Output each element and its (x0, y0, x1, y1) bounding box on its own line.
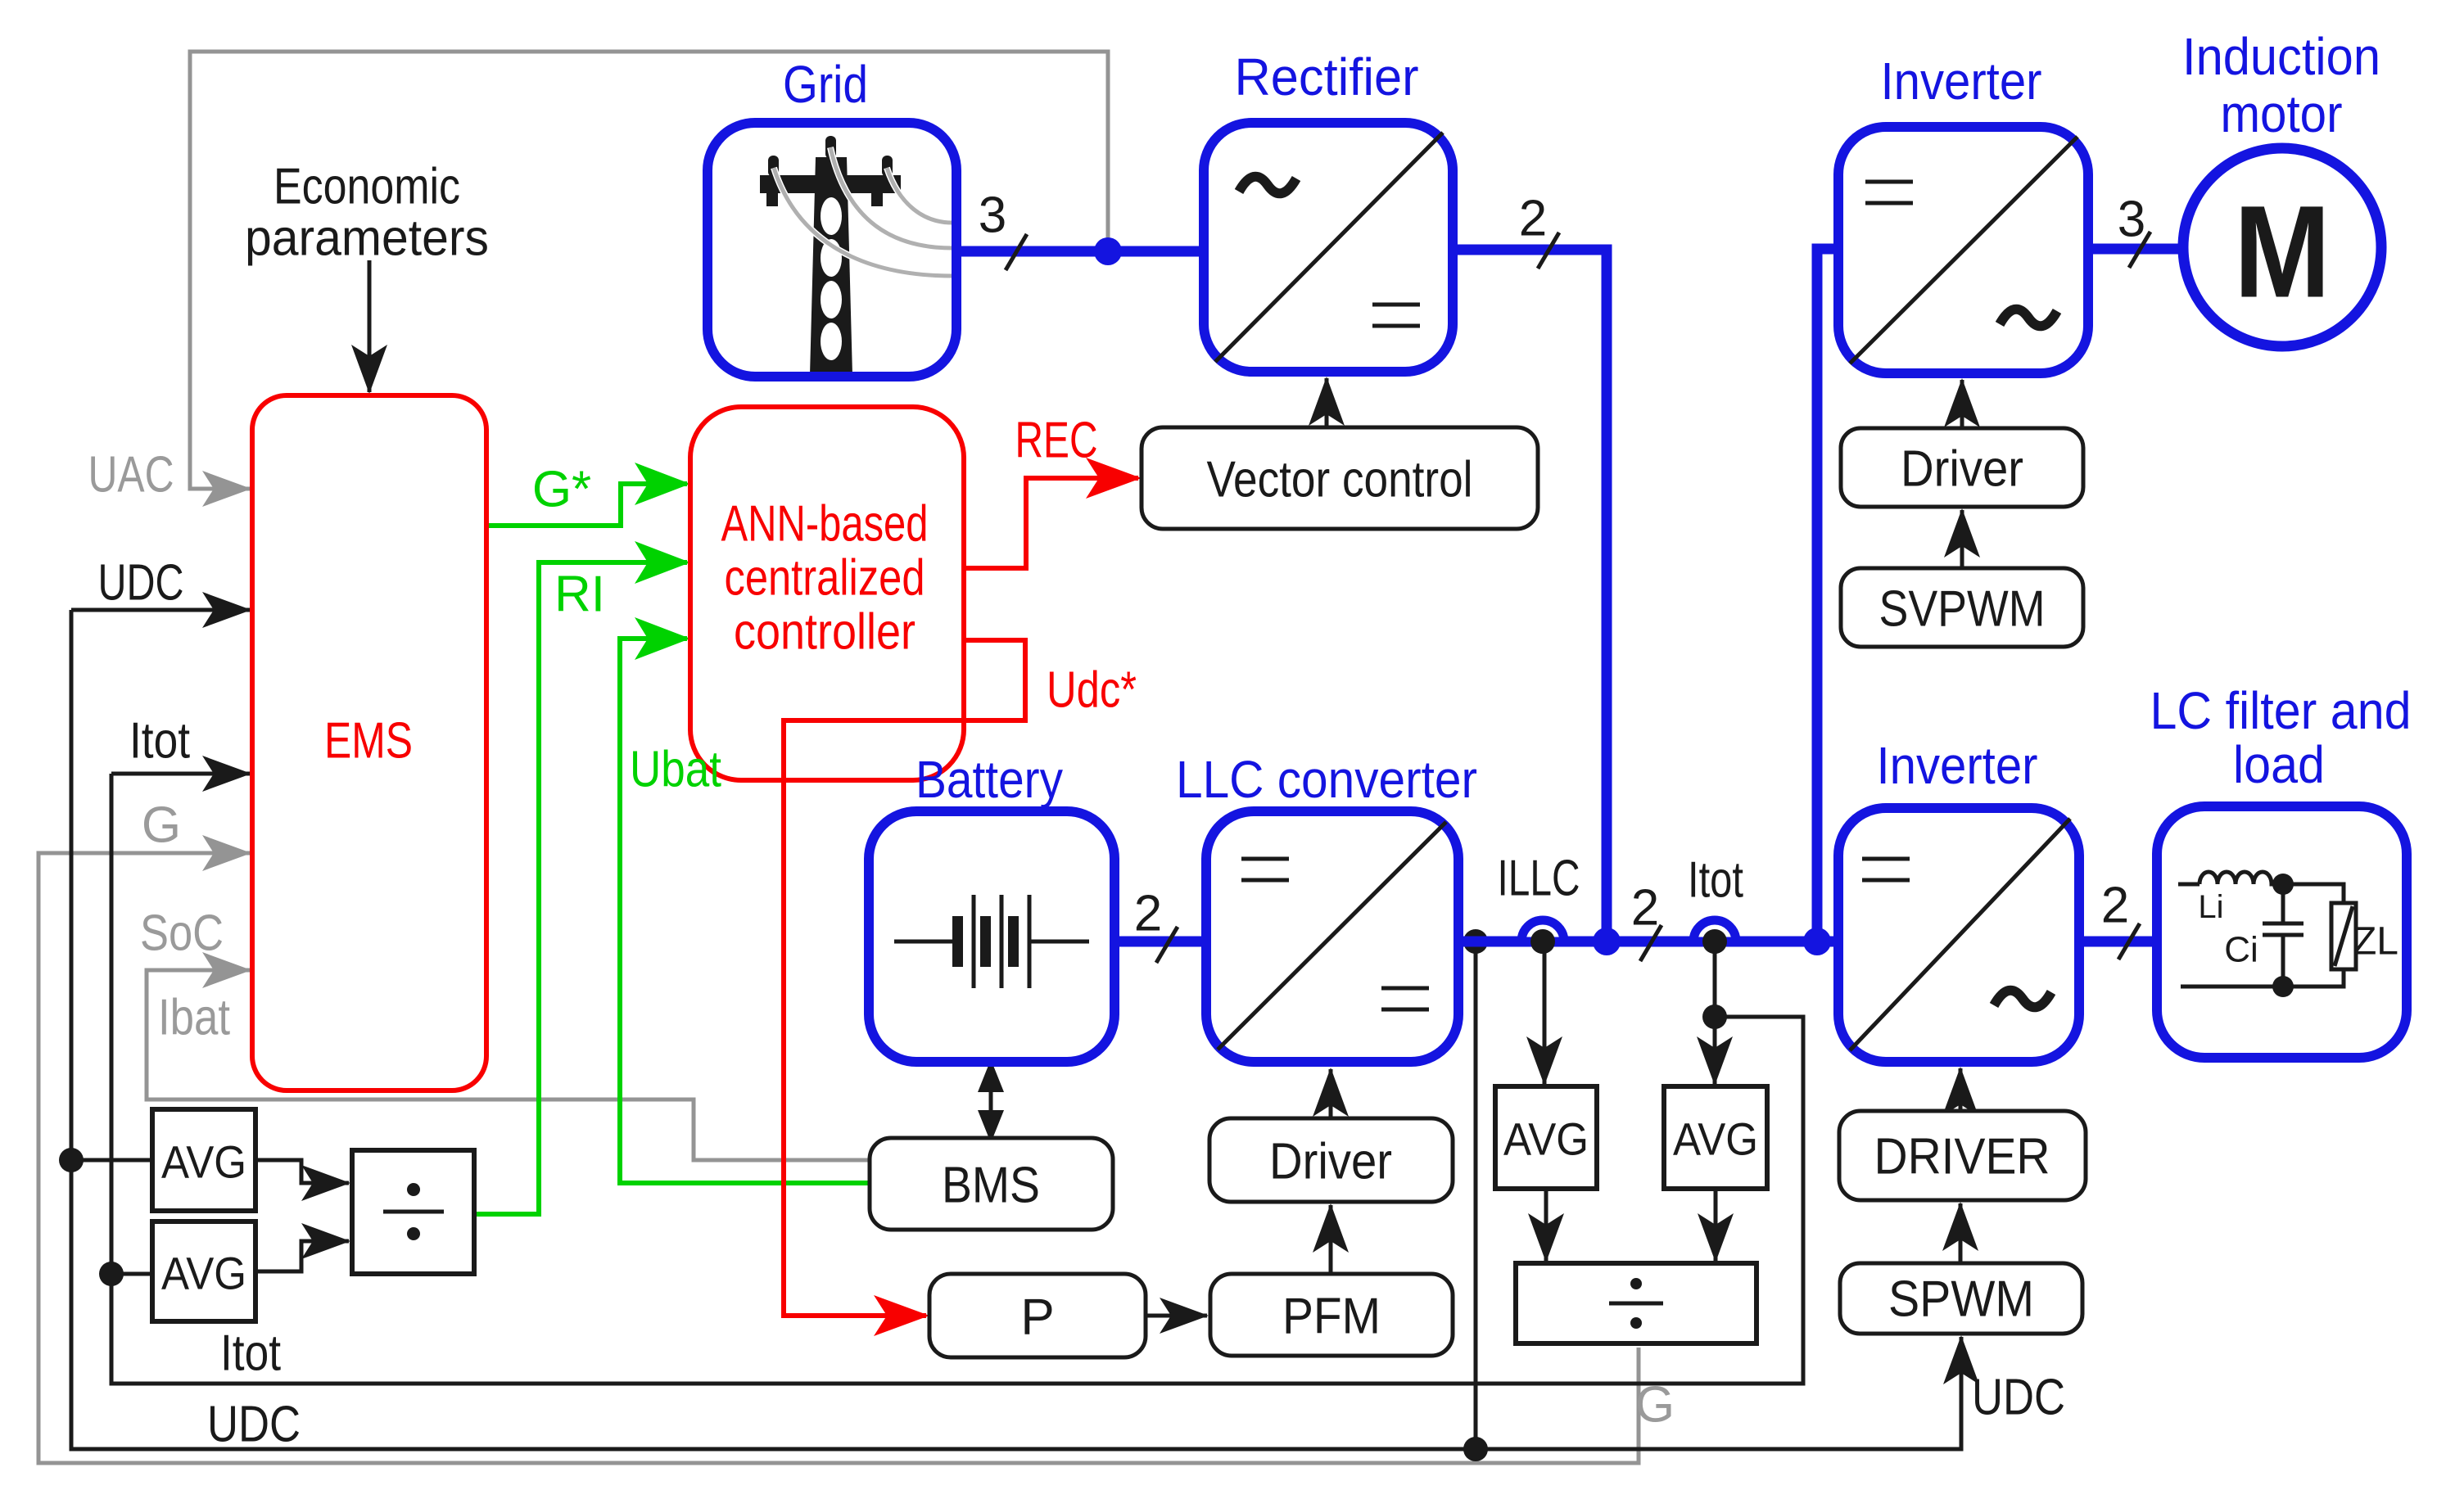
wire blue Grid to Rectifier (956, 246, 1204, 257)
svg-text:LLC converter: LLC converter (1176, 750, 1477, 809)
svg-text:Ibat: Ibat (158, 990, 230, 1046)
grid tower mast (810, 157, 852, 375)
svg-text:Induction: Induction (2182, 27, 2380, 86)
wire Itot black net: EMS input, bottom rail (111, 772, 250, 776)
svg-text:SPWM: SPWM (1888, 1271, 2034, 1328)
Driver box LLC (1209, 1118, 1453, 1202)
svg-text:UDC: UDC (207, 1397, 301, 1453)
svg-text:Itot: Itot (220, 1325, 281, 1382)
wire Ubat green BMS to ANN (620, 639, 870, 1183)
slash rectifier output (1538, 233, 1559, 269)
svg-text:Inverter: Inverter (1881, 52, 2042, 111)
junction dot grid node (1094, 237, 1122, 265)
svg-text:AVG: AVG (161, 1136, 246, 1188)
svg-text:controller: controller (734, 604, 916, 661)
Inverter top block (1838, 127, 2088, 373)
LC filter capacitor Ci (2263, 884, 2304, 987)
divider box left (352, 1150, 474, 1274)
slash grid output (1006, 234, 1027, 270)
wire Battery to BMS bidirectional (989, 1074, 993, 1128)
wire AVG1 to divider (255, 1160, 349, 1183)
inverter top diagonal (1850, 137, 2077, 363)
wire ILLC sense to AVG (1543, 941, 1547, 1084)
svg-text:3: 3 (979, 187, 1006, 244)
wire Driver to LLC converter (1329, 1069, 1333, 1118)
grid wires gray catenaries (774, 168, 952, 276)
BMS box (870, 1138, 1113, 1230)
inverter bottom diagonal (1850, 819, 2070, 1050)
svg-text:AVG: AVG (1503, 1113, 1589, 1165)
wire AVG mid1 to divider mid (1544, 1189, 1548, 1261)
svg-text:SVPWM: SVPWM (1879, 581, 2046, 638)
wire UAC gray feedback from grid node to EMS (190, 52, 1108, 489)
LC filter node top (2272, 874, 2294, 895)
svg-text:G: G (1635, 1377, 1675, 1434)
junction dot DC bus rectifier (1593, 928, 1621, 955)
wire blue Inverter bottom to LC filter (2079, 937, 2157, 947)
Driver box top (1841, 428, 2083, 507)
svg-text:Vector control: Vector control (1207, 452, 1473, 508)
wire Udc* red ANN to P (784, 640, 1025, 1316)
wire AVG mid2 to divider mid (1714, 1189, 1718, 1261)
svg-text:UDC: UDC (98, 555, 184, 612)
svg-text:Itot: Itot (129, 713, 190, 770)
DRIVER box (1839, 1111, 2086, 1200)
divider box mid (1516, 1263, 1756, 1343)
svg-text:Grid: Grid (783, 55, 868, 114)
svg-text:G*: G* (532, 462, 591, 518)
svg-text:2: 2 (1631, 880, 1659, 937)
svg-text:2: 2 (1519, 191, 1547, 247)
svg-text:UDC: UDC (1972, 1370, 2065, 1426)
Grid block (708, 123, 956, 377)
wire blue Rectifier to DC bus (1453, 250, 1607, 941)
wire DRIVER to Inverter bottom (1959, 1068, 1963, 1111)
LLC diagonal (1218, 822, 1446, 1050)
svg-text:REC: REC (1015, 413, 1098, 469)
junction dot Itot sense branch (1702, 1005, 1727, 1029)
LC filter node bottom (2272, 976, 2294, 997)
svg-text:M: M (2234, 178, 2331, 325)
Battery block (869, 811, 1114, 1062)
LC filter and load block (2157, 806, 2407, 1058)
Vector control box (1142, 427, 1538, 529)
junction dot UDC tap top (1463, 929, 1488, 954)
wire Vector control to Rectifier (1325, 378, 1329, 427)
wire SoC/Ibat gray from BMS to EMS (147, 970, 870, 1160)
junction dot ILLC sense (1530, 929, 1555, 954)
slash battery output (1156, 927, 1178, 963)
grid tower mast holes (821, 197, 842, 235)
rectifier AC symbol (1239, 177, 1296, 194)
battery symbol (894, 940, 1089, 944)
wire G* green EMS to ANN (486, 484, 687, 526)
svg-text:DRIVER: DRIVER (1874, 1129, 2050, 1185)
SVPWM box (1841, 568, 2083, 647)
svg-text:Ubat: Ubat (630, 742, 721, 798)
grid tower crossarm (760, 175, 901, 206)
AVG box mid 2 (1664, 1086, 1767, 1189)
wire G gray from divider to EMS (38, 853, 1639, 1463)
svg-text:G: G (142, 797, 181, 854)
svg-text:PFM: PFM (1282, 1289, 1381, 1345)
wire blue Inverter top to motor (2088, 244, 2180, 255)
wire SPWM to DRIVER (1959, 1203, 1963, 1263)
LLC converter block (1206, 811, 1458, 1062)
grid tower insulator pins (768, 156, 779, 177)
svg-text:AVG: AVG (1673, 1113, 1758, 1165)
inverter top AC symbol (2000, 309, 2057, 327)
svg-text:SoC: SoC (140, 905, 224, 962)
svg-text:Economic: Economic (274, 159, 460, 215)
svg-text:Battery: Battery (916, 750, 1063, 809)
svg-text:P: P (1020, 1289, 1054, 1346)
svg-text:Rectifier: Rectifier (1235, 47, 1419, 106)
svg-text:parameters: parameters (245, 210, 489, 267)
svg-text:LC filter and: LC filter and (2150, 681, 2412, 740)
wire P to PFM (1146, 1314, 1207, 1318)
svg-text:Inverter: Inverter (1877, 736, 2038, 795)
AVG box left 2 (152, 1221, 255, 1321)
svg-text:Li: Li (2198, 889, 2223, 925)
wire UDC to AVG box (71, 1158, 152, 1163)
LLC DC symbol bottom (1381, 988, 1429, 1009)
ANN-based centralized controller block (690, 407, 964, 780)
wire SVPWM to Driver top (1960, 510, 1964, 568)
wire AVG2 to divider (255, 1241, 349, 1271)
wire Itot to AVG box (111, 1272, 152, 1276)
LC filter inductor Li (2178, 872, 2283, 884)
wire Itot sense branch to bottom rail (1715, 1017, 1803, 1384)
wire UDC black net: EMS input, bottom rail, SPWM input (71, 608, 250, 612)
LLC DC symbol top (1241, 859, 1289, 880)
wire blue LLC to Inverter bottom (1458, 937, 1838, 947)
rectifier diagonal (1215, 133, 1443, 362)
slash inverter top output (2129, 232, 2150, 268)
AVG box mid 1 (1495, 1086, 1597, 1189)
inverter bottom AC symbol (1994, 991, 2051, 1008)
svg-text:centralized: centralized (725, 550, 925, 607)
Inverter bottom block (1838, 808, 2079, 1062)
svg-text:ANN-based: ANN-based (721, 496, 929, 553)
svg-text:ILLC: ILLC (1498, 851, 1580, 907)
svg-text:motor: motor (2221, 84, 2343, 143)
current sensor Itot bump (1693, 920, 1736, 941)
wire PFM to Driver (1329, 1205, 1333, 1274)
svg-text:RI: RI (554, 567, 605, 623)
current sensor ILLC bump (1521, 920, 1564, 941)
Rectifier block (1204, 123, 1453, 372)
junction dot UDC tap bottom (1463, 1437, 1488, 1461)
svg-text:Driver: Driver (1901, 441, 2023, 498)
svg-text:Ci: Ci (2224, 930, 2258, 970)
wire blue DC bus up to Inverter top (1817, 249, 1838, 941)
wire REC red ANN to Vector control (964, 478, 1138, 568)
wire blue Battery to LLC (1114, 937, 1206, 947)
PFM box (1210, 1274, 1453, 1356)
svg-text:Itot: Itot (1688, 852, 1743, 909)
svg-text:UAC: UAC (88, 447, 174, 503)
P box (929, 1274, 1146, 1357)
slash dc bus (1640, 925, 1662, 961)
LC filter load ZL (2181, 884, 2344, 987)
svg-text:2: 2 (1134, 886, 1162, 942)
svg-text:BMS: BMS (942, 1158, 1040, 1214)
junction dot UDC to AVG (59, 1148, 84, 1172)
svg-text:EMS: EMS (324, 713, 413, 770)
wire RI green divider to ANN (474, 562, 687, 1214)
rectifier DC symbol (1372, 305, 1420, 326)
AVG box left 1 (152, 1109, 255, 1211)
wire UDC tap from DC link to bottom rail (1474, 941, 1478, 1449)
svg-text:3: 3 (2118, 192, 2145, 248)
wire Driver to Inverter top (1960, 380, 1964, 428)
inverter bottom DC symbol (1862, 859, 1910, 880)
svg-text:2: 2 (2101, 878, 2129, 934)
junction dot Itot sense top (1702, 929, 1727, 954)
svg-text:AVG: AVG (161, 1248, 246, 1299)
slash inverter bottom output (2118, 923, 2140, 959)
svg-text:Udc*: Udc* (1047, 662, 1137, 719)
EMS block (252, 395, 486, 1090)
inverter top DC symbol (1865, 182, 1913, 203)
junction dot Itot to AVG (99, 1262, 124, 1286)
wire Economic parameters arrow into EMS (368, 260, 372, 392)
wire Itot sense to AVG (1713, 941, 1717, 1084)
svg-text:load: load (2233, 735, 2325, 794)
Induction motor circle (2183, 148, 2381, 346)
SPWM box (1840, 1263, 2082, 1334)
svg-text:ZL: ZL (2353, 920, 2398, 964)
junction dot DC bus inverter top (1803, 928, 1831, 955)
svg-text:Driver: Driver (1269, 1134, 1392, 1190)
